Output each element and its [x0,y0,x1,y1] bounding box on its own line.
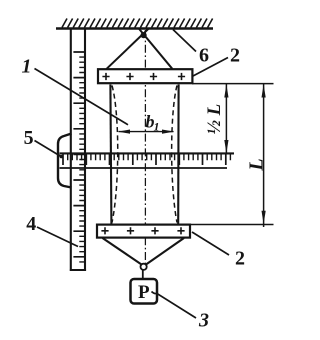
leader for label 6 [173,30,196,52]
top clamp bar 2 [98,69,192,83]
leader for label 1 [35,69,129,125]
top clamp bar bolt crosses [102,73,185,80]
specimen left edge solid [110,85,111,224]
specimen deformed left edge dashed [112,86,118,223]
leader for top label 2 [193,58,228,77]
svg-text:6: 6 [199,45,209,67]
svg-text:1: 1 [154,120,160,134]
svg-text:1: 1 [22,56,32,78]
ceiling hatching [62,19,213,28]
specimen centerline [144,30,146,266]
specimen right edge solid [177,85,180,224]
svg-text:3: 3 [198,310,209,332]
vertical ruler 4 body [70,29,86,270]
leader for label 4 [37,227,78,247]
svg-text:5: 5 [24,127,34,149]
weight box 3 [131,279,158,304]
hanger right strand [146,238,184,265]
leader for label 3 [152,292,197,319]
hanger ring [141,264,147,270]
dimension b1 left arrowhead [118,130,130,134]
svg-text:2: 2 [230,45,240,67]
leader for label 5 [35,141,62,157]
svg-text:2: 2 [235,247,245,269]
dimension half-L top arrowhead [224,84,228,97]
svg-text:P: P [138,282,150,303]
svg-text:4: 4 [26,213,36,235]
horizontal ruler top edge [60,152,235,154]
bottom clamp bar 2 [97,225,190,238]
vertical ruler 4 tick marks [73,52,84,257]
dimension L top arrowhead [262,84,266,97]
extension line top [192,83,274,85]
slider clip 5 [58,134,72,188]
suspension knot [141,32,147,38]
dimension L bottom arrowhead [262,211,266,224]
dimension b1 right arrowhead [162,130,174,134]
horizontal ruler tick marks [63,154,226,165]
svg-text:L: L [245,158,267,171]
suspension hook left strand [139,29,172,69]
bottom clamp bar bolt crosses [101,227,184,234]
suspension hook right strand [107,29,149,69]
dimension half-L line [225,84,227,154]
svg-text:½ L: ½ L [204,104,225,135]
dimension L line [263,84,265,227]
horizontal ruler bottom edge [60,167,228,169]
extension line bottom [189,224,274,226]
hanger left strand [103,238,142,265]
ceiling line [56,27,213,29]
dimension half-L bottom arrowhead [224,140,228,153]
specimen deformed right edge dashed [172,86,177,223]
leader for bottom label 2 [192,232,229,255]
hanger link [142,270,144,279]
dimension b1 line [119,131,174,133]
